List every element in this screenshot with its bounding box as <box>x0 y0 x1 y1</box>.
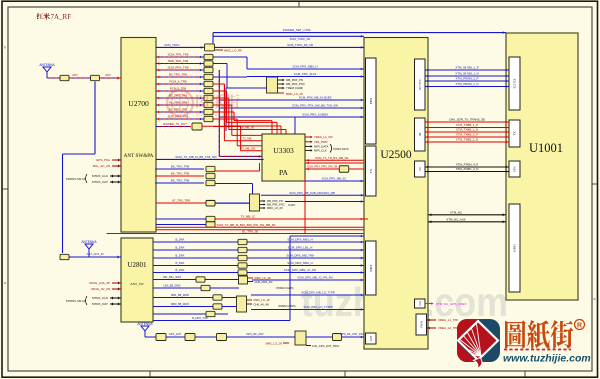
svg-text:MIPI_CLK: MIPI_CLK <box>314 149 327 153</box>
svg-text:MB_PRX_PNC: MB_PRX_PNC <box>267 203 285 207</box>
svg-text:LNA_GPS_ANT_TRIG: LNA_GPS_ANT_TRIG <box>312 344 339 348</box>
svg-text:XTM_PRAM_1_P: XTM_PRAM_1_P <box>456 77 479 81</box>
svg-text:XTM_PRAM_1_N: XTM_PRAM_1_N <box>456 82 479 86</box>
svg-text:STRING SM UP: STRING SM UP <box>66 177 86 181</box>
svg-text:LB3_B8_SW5: LB3_B8_SW5 <box>164 284 181 288</box>
svg-text:TX_MB: TX_MB <box>243 137 252 141</box>
svg-text:SCM_TX_MB_M_B8_TX8_SW: SCM_TX_MB_M_B8_TX8_SW <box>175 155 217 159</box>
svg-text:GPS_RF_ANT_PSA: GPS_RF_ANT_PSA <box>340 332 365 336</box>
svg-text:MTRX_CLK: MTRX_CLK <box>92 174 108 178</box>
svg-text:U2700: U2700 <box>128 99 149 108</box>
svg-text:SCM_PRX_TR8: SCM_PRX_TR8 <box>167 66 188 70</box>
svg-text:XTM_NC: XTM_NC <box>450 210 462 214</box>
svg-text:RAISED_TX_OUT: RAISED_TX_OUT <box>163 122 187 126</box>
svg-text:XTM_TXBB_1_N: XTM_TXBB_1_N <box>456 128 478 132</box>
svg-text:SCM_DRX_LO_TTTP8: SCM_DRX_LO_TTTP8 <box>303 305 333 309</box>
svg-text:SCM_PRX_PRX_RM_38: SCM_PRX_PRX_RM_38 <box>307 164 338 168</box>
svg-text:SCM_TX_MB_M_B34_B39_PW_SW_MB_P: SCM_TX_MB_M_B34_B39_PW_SW_MB_PA <box>217 223 276 227</box>
svg-text:SCM_TXRC_RF: SCM_TXRC_RF <box>290 37 311 41</box>
svg-text:BX_TRX_TR8: BX_TRX_TR8 <box>171 165 190 169</box>
svg-text:SCM_TRX_TR6: SCM_TRX_TR6 <box>168 53 189 57</box>
svg-text:POWER_SET_CTRL: POWER_SET_CTRL <box>283 28 312 32</box>
svg-text:MTRX_DAT: MTRX_DAT <box>92 302 108 306</box>
svg-text:PCM_X_TR8: PCM_X_TR8 <box>169 80 186 84</box>
svg-text:GPS_PSA: GPS_PSA <box>96 158 110 162</box>
svg-text:XTM_TXBB_2_N: XTM_TXBB_2_N <box>456 138 478 142</box>
svg-text:MMC_LO_RF: MMC_LO_RF <box>224 49 242 53</box>
svg-text:B1_TRX_JB: B1_TRX_JB <box>242 229 258 233</box>
svg-text:XTM_ATMN_4_P: XTM_ATMN_4_P <box>456 163 479 167</box>
svg-text:BX_TRX_TR8: BX_TRX_TR8 <box>171 179 190 183</box>
svg-text:U1001: U1001 <box>529 141 563 155</box>
svg-text:B_DRX: B_DRX <box>176 268 185 272</box>
svg-text:TRISO DIOS: TRISO DIOS <box>333 147 349 151</box>
svg-text:B_DRX: B_DRX <box>176 238 185 242</box>
svg-text:B_DRX_TR8: B_DRX_TR8 <box>192 316 208 320</box>
svg-text:PA: PA <box>279 168 288 177</box>
svg-text:SCM_DRX_MB_TR8: SCM_DRX_MB_TR8 <box>286 254 314 258</box>
svg-text:GPS: GPS <box>513 166 517 172</box>
svg-text:ANTENNA: ANTENNA <box>137 322 153 326</box>
svg-text:U2801: U2801 <box>127 261 147 269</box>
svg-text:DRX: DRX <box>369 264 373 272</box>
svg-text:TX_MB_JB3: TX_MB_JB3 <box>241 147 256 151</box>
svg-text:ANTENNA: ANTENNA <box>39 63 55 67</box>
svg-text:BX_TRX_TR8: BX_TRX_TR8 <box>171 172 190 176</box>
svg-text:U3303: U3303 <box>273 146 294 155</box>
svg-text:www.tuzhijie.com: www.tuzhijie.com <box>196 112 231 117</box>
svg-text:XO TTV: XO TTV <box>418 78 422 90</box>
svg-text:TX: TX <box>513 131 517 136</box>
svg-text:XTM_NC_AUX: XTM_NC_AUX <box>446 217 466 221</box>
svg-text:SCM_DRX_LB1_H: SCM_DRX_LB1_H <box>288 246 313 250</box>
svg-text:SCM_PRX_TRX_SW_B8_TX8_SW: SCM_PRX_TRX_SW_B8_TX8_SW <box>292 104 338 108</box>
svg-text:PRX: PRX <box>369 97 373 104</box>
svg-text:ANT_ANT_IN: ANT_ANT_IN <box>86 252 103 256</box>
svg-text:LB1_B8+_SW1: LB1_B8+_SW1 <box>163 275 182 279</box>
svg-text:CHK_DRX_4N: CHK_DRX_4N <box>255 280 273 284</box>
svg-text:ANTENNA: ANTENNA <box>81 240 97 244</box>
svg-text:SCM_DRX_MB_JC_PH_PH: SCM_DRX_MB_JC_PH_PH <box>297 276 332 280</box>
svg-text:MB1_B8_MW0: MB1_B8_MW0 <box>171 293 190 297</box>
svg-text:ANT: ANT <box>105 73 111 77</box>
svg-text:CHK_AV_4N: CHK_AV_4N <box>254 303 270 307</box>
svg-text:SCM_PRX_MB_SUB_DRX&RX_MB: SCM_PRX_MB_SUB_DRX&RX_MB <box>289 191 335 195</box>
svg-text:a: a <box>594 297 596 301</box>
svg-text:XTM_TXBB_1_P: XTM_TXBB_1_P <box>456 123 478 127</box>
svg-text:SCM_PRX_MB_M_B1B3: SCM_PRX_MB_M_B1B3 <box>299 96 332 100</box>
svg-text:B_DRX: B_DRX <box>176 261 185 265</box>
svg-text:SCM_PRX_MB2_H: SCM_PRX_MB2_H <box>292 65 317 69</box>
svg-text:B3_TRX_TR8: B3_TRX_TR8 <box>169 73 187 77</box>
svg-text:ANT: ANT <box>72 73 78 77</box>
svg-text:U2500: U2500 <box>380 149 412 161</box>
svg-text:SCM_PRX_SUB2M: SCM_PRX_SUB2M <box>302 113 328 117</box>
svg-text:7A_RF: 7A_RF <box>51 13 72 21</box>
svg-text:SDR_TRX_TR6: SDR_TRX_TR6 <box>168 59 189 63</box>
svg-text:CLK: CLK <box>419 301 422 306</box>
svg-text:VPA_PWR: VPA_PWR <box>314 140 327 144</box>
svg-text:MMC_LO_4P: MMC_LO_4P <box>255 276 271 280</box>
svg-text:b: b <box>4 46 6 50</box>
svg-text:AT_TRX_TR8: AT_TRX_TR8 <box>172 199 190 203</box>
svg-text:SCM_DRX_MB1_H: SCM_DRX_MB1_H <box>287 238 312 242</box>
svg-text:TREM (OHM): TREM (OHM) <box>286 86 303 90</box>
svg-text:BAL_AC_2N: BAL_AC_2N <box>93 164 110 168</box>
svg-text:GPS_ANT: GPS_ANT <box>169 332 182 336</box>
svg-text:TX: TX <box>369 168 373 173</box>
svg-text:TX_MB_JC: TX_MB_JC <box>241 215 256 219</box>
svg-text:MB3_B8_MW2: MB3_B8_MW2 <box>171 302 190 306</box>
svg-text:MTRX_DAT: MTRX_DAT <box>92 180 108 184</box>
svg-text:VREG_L1_7P8: VREG_L1_7P8 <box>438 318 458 322</box>
svg-text:XTM_NC_GPS_COEX: XTM_NC_GPS_COEX <box>436 302 467 306</box>
svg-text:XTM_38.938_1_N: XTM_38.938_1_N <box>455 72 478 76</box>
svg-text:SCM_PRX_MB_SC: SCM_PRX_MB_SC <box>322 177 347 181</box>
svg-text:SCM_DRX_MB_LO_TTPR: SCM_DRX_MB_LO_TTPR <box>301 291 335 295</box>
svg-text:SCM_PRX_SLV2: SCM_PRX_SLV2 <box>294 72 317 76</box>
svg-text:SLT RX: SLT RX <box>513 78 517 89</box>
svg-text:B_DRX: B_DRX <box>176 254 185 258</box>
svg-text:GPS_RF_ANT: GPS_RF_ANT <box>246 332 264 336</box>
svg-text:VANG_LNA_2P: VANG_LNA_2P <box>89 281 110 285</box>
svg-text:(TREM CHN5): (TREM CHN5) <box>276 286 294 290</box>
svg-text:MB_PRX_PN: MB_PRX_PN <box>267 199 283 203</box>
svg-text:GPS: GPS <box>369 335 373 341</box>
svg-text:MMC_LO_2P: MMC_LO_2P <box>267 206 283 210</box>
svg-text:SCM_TXRC_RF_N8: SCM_TXRC_RF_N8 <box>287 43 313 47</box>
svg-text:TX_MB_JB: TX_MB_JB <box>240 125 253 129</box>
svg-text:STRING SM UP: STRING SM UP <box>66 299 86 303</box>
svg-text:VREG_L2_7P8: VREG_L2_7P8 <box>438 326 458 330</box>
svg-text:PWR: PWR <box>419 321 423 328</box>
svg-text:ANT SW&PA: ANT SW&PA <box>124 153 154 159</box>
svg-text:GPIO: GPIO <box>513 243 517 251</box>
svg-text:MMC_LO_2N: MMC_LO_2N <box>266 342 282 346</box>
svg-text:SCM_DRX_MB2_H: SCM_DRX_MB2_H <box>287 261 312 265</box>
svg-text:XTM_ATMN_4_N: XTM_ATMN_4_N <box>456 167 479 171</box>
svg-text:(TREM CHN5): (TREM CHN5) <box>278 304 296 308</box>
svg-text:S-DIO: S-DIO <box>288 203 295 207</box>
svg-text:XTM_38.938_1_P: XTM_38.938_1_P <box>455 66 478 70</box>
svg-text:SCM_DRX_MB2_JC_PH: SCM_DRX_MB2_JC_PH <box>284 268 316 272</box>
svg-text:B_DRX: B_DRX <box>176 246 185 250</box>
svg-text:R: R <box>577 323 582 330</box>
svg-text:ANT_SW: ANT_SW <box>130 282 145 286</box>
svg-text:VREG_L2_CM: VREG_L2_CM <box>314 135 333 139</box>
svg-text:VANG_AV_2N: VANG_AV_2N <box>91 287 110 291</box>
svg-text:MTRX_CLK: MTRX_CLK <box>92 296 108 300</box>
svg-text:SCM_TRXC: SCM_TRXC <box>164 43 179 47</box>
svg-text:a: a <box>4 281 6 285</box>
svg-text:MMC_LO_4P: MMC_LO_4P <box>254 298 270 302</box>
svg-text:SCM_TX_TR_RX_RM_WL: SCM_TX_TR_RX_RM_WL <box>315 156 349 160</box>
svg-text:XTM_TXBB_2_P: XTM_TXBB_2_P <box>456 133 478 137</box>
svg-text:CHK_SDR_TX_TRANS_SE: CHK_SDR_TX_TRANS_SE <box>449 118 485 122</box>
svg-text:www.tuzhijie.com: www.tuzhijie.com <box>503 353 591 365</box>
